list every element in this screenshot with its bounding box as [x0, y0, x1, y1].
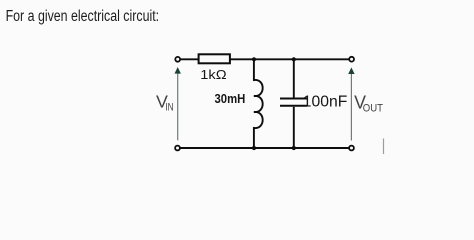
- svg-text:For a given electrical circuit: For a given electrical circuit:: [6, 8, 160, 25]
- svg-text:100nF: 100nF: [303, 93, 348, 111]
- svg-text:IN: IN: [165, 102, 173, 114]
- svg-text:OUT: OUT: [363, 103, 383, 115]
- svg-text:1kΩ: 1kΩ: [200, 68, 226, 82]
- svg-text:30mH: 30mH: [215, 92, 246, 106]
